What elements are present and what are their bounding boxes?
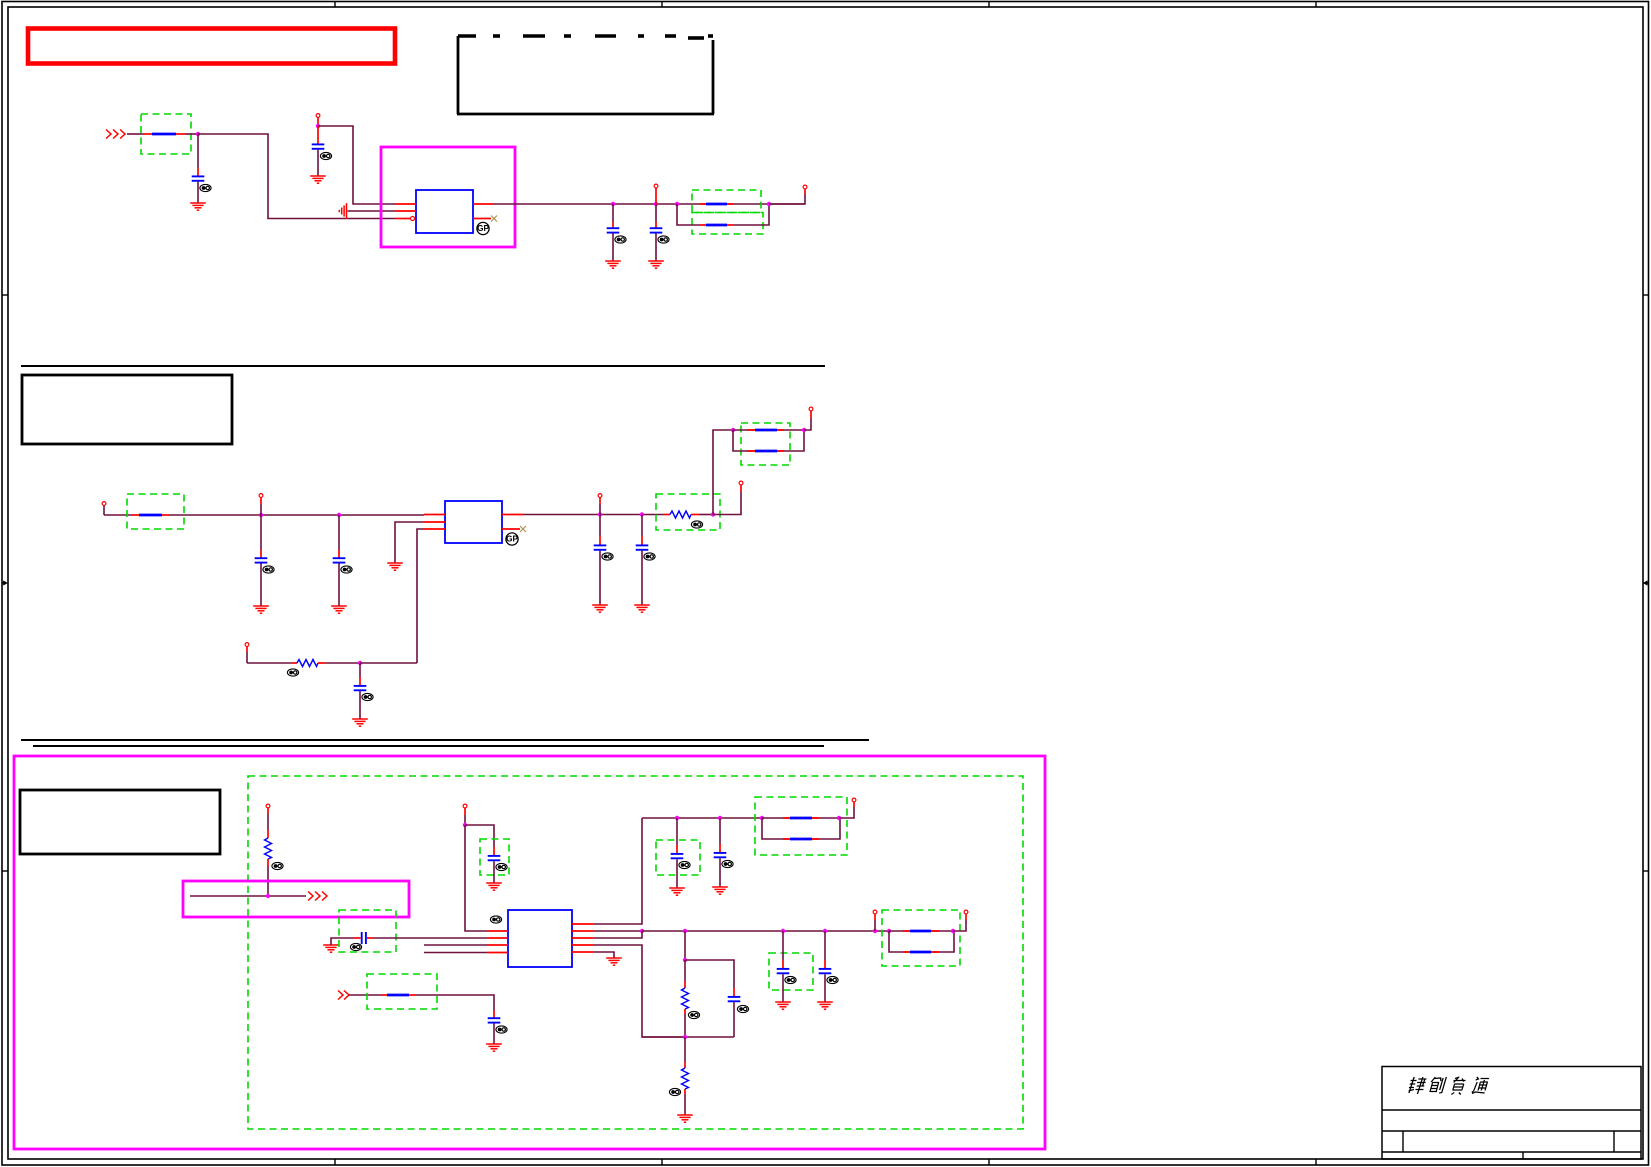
junction at C3 [611, 202, 615, 206]
resistor R3 (vertical) [265, 838, 272, 859]
wire U3 pin 2 to audio rail [593, 930, 642, 932]
wire node D to codec pin1 [465, 825, 487, 931]
output pin P9 [809, 407, 813, 411]
ground at U2 pin 2 [387, 563, 403, 570]
wire U3 pin 5 to ground [593, 952, 614, 958]
U2 output pin stub [502, 514, 523, 516]
U3 right pin 3 stub [572, 937, 593, 939]
junction node D [463, 823, 467, 827]
capacitor C5 stub [260, 515, 262, 558]
wire C12 to ground [493, 1024, 495, 1045]
series capacitor C10 right stub [367, 937, 374, 939]
wire to output pin P9 [804, 411, 811, 430]
junction node A [196, 132, 200, 136]
dnp dashed box around FB1 [141, 114, 191, 154]
capacitor C1 designator [200, 184, 211, 191]
wire R1 to junction [699, 514, 713, 516]
junction at sense pin P14 [873, 929, 877, 933]
U2 pin 3 wire [417, 529, 424, 663]
ferrite bead FB4 [132, 514, 169, 516]
junction audio ferrite pair right [951, 929, 955, 933]
wire junction to sense pin P8 [713, 485, 741, 515]
wire C14 to ground [719, 858, 721, 887]
upper wire through FB5 [733, 429, 804, 431]
U2 pin 1 stub [424, 514, 445, 516]
wire chevrons to ferrite FB7 [349, 994, 381, 996]
ground symbol at regulator pin2 (rotated) [339, 203, 346, 219]
U3 left pin 3 wire [424, 944, 487, 946]
capacitor C3 [607, 228, 620, 232]
ground below C12 [486, 1044, 502, 1051]
net label magenta box [183, 881, 409, 917]
notes box section 2 (text scrubbed) [22, 375, 232, 444]
wire junction down to node E [684, 931, 686, 960]
capacitor C6 stub [338, 515, 340, 558]
U1 nc pin stub [473, 218, 491, 220]
capacitor C6 [333, 558, 346, 562]
title highlight red box [28, 29, 395, 64]
capacitor C2 designator [320, 152, 331, 159]
power pin P7 [598, 494, 602, 498]
U3 left pin 2 stub [487, 937, 508, 939]
wire C16 to ground [782, 974, 784, 1002]
U1 pin 1 stub [395, 203, 416, 205]
junction at ferrite pair right [767, 202, 771, 206]
pin P14 stub [874, 914, 876, 931]
mic pin P12 [463, 804, 467, 808]
wire C2 to ground [317, 150, 319, 176]
junction after R1 [711, 512, 715, 516]
capacitor C7 designator [602, 553, 613, 560]
dnp dashed box around C11 [480, 839, 509, 875]
wire FB7 to capacitor C12 [416, 995, 494, 1010]
resistor R4 designator [688, 1011, 699, 1018]
border zone tick right 2 [1643, 870, 1649, 872]
wire C11 to ground [493, 861, 495, 883]
capacitor C1 red stub [197, 134, 199, 176]
wire C1 to ground [197, 182, 199, 203]
title block row divider 2 [1382, 1130, 1641, 1132]
pin P6 stub [260, 498, 262, 516]
capacitor C2 red stub [317, 126, 319, 144]
dnp dashed box around FB2 [692, 190, 761, 213]
border zone tick right 1 [1643, 294, 1649, 296]
border zone tick left 2 [2, 870, 8, 872]
wire C6 to ground [338, 564, 340, 607]
regulator U2 body [445, 501, 502, 543]
junction ferrite pair right [802, 428, 806, 432]
junction at C7 [598, 512, 602, 516]
ferrite bead FB7 [381, 994, 416, 996]
junction audio rail at U3 [640, 929, 644, 933]
output pin P15 [964, 910, 968, 914]
title block cell divider right [1613, 1131, 1615, 1152]
capacitor C9 [354, 686, 367, 690]
capacitor C4 designator [658, 236, 669, 243]
off-page connector chevrons right [308, 892, 327, 901]
power rail wire [642, 817, 762, 819]
capacitor C17 stub [824, 931, 826, 968]
dnp dashed box around R1 [656, 494, 720, 530]
wire U3 pin to power rail [593, 818, 642, 924]
wire C13 to ground [676, 859, 678, 888]
power pin P6 [259, 494, 263, 498]
wire node B to regulator pin1 [318, 126, 395, 204]
dnp dashed box around C13 [656, 840, 700, 875]
capacitor C8 designator [644, 553, 655, 560]
capacitor C11 designator [496, 863, 507, 870]
wire C3 to ground [612, 234, 614, 262]
module outline magenta box section 3 [14, 756, 1045, 1149]
power pin P13 [852, 798, 856, 802]
ground below C13 [669, 888, 685, 895]
ground below C9 [352, 719, 368, 726]
ground below C11 [486, 883, 502, 890]
audio rail wire [642, 930, 889, 932]
regulator U1 body [416, 190, 473, 233]
wire R2 to junction [325, 662, 360, 664]
title block row divider 1 [1382, 1109, 1641, 1111]
wire R5 to ground [684, 1094, 686, 1115]
junction at C16 [781, 929, 785, 933]
ferrite bead FB1 [143, 133, 185, 135]
series capacitor C10 left stub [353, 937, 361, 939]
resistor R2 left stub [291, 662, 297, 664]
ground below C2 [310, 176, 326, 183]
section divider line [21, 365, 825, 367]
wire input to ferrite FB1 [127, 133, 143, 135]
pin P2 stub [317, 118, 319, 127]
ground below C14 [712, 887, 728, 894]
wire C4 to ground [655, 234, 657, 262]
capacitor C13 designator [679, 861, 690, 868]
border zone tick left 1 [2, 294, 8, 296]
U3 right pin 5 stub [572, 951, 593, 953]
dnp dashed box around FB10 FB11 [882, 910, 960, 966]
wire node D to capacitor C11 [465, 825, 494, 847]
resistor R1 left stub [663, 514, 670, 516]
section divider double line upper [21, 739, 869, 741]
notes box section 1 (text scrubbed) [457, 36, 714, 114]
parallel loop wire through FB11 [889, 931, 954, 952]
power pin P3 [654, 184, 658, 188]
junction ferrite pair left [731, 428, 735, 432]
wire U3 pin 4 to bottom rail [593, 945, 684, 1037]
ferrite bead FB6 [747, 450, 784, 452]
ferrite bead FB2 [700, 203, 733, 205]
resistor R2 [297, 660, 318, 667]
dnp dashed box around FB8 FB9 [755, 797, 847, 855]
border zone tick bottom 4 [1315, 1159, 1317, 1165]
U3 right pin 2 stub [572, 930, 593, 932]
svg-text:GP: GP [477, 224, 489, 233]
U3 right pin 1 stub [572, 923, 593, 925]
capacitor C3 stub [612, 204, 614, 228]
ground below C7 [592, 605, 608, 612]
border centre arrow right [1643, 581, 1648, 585]
bias pin P11 [266, 804, 270, 808]
capacitor C11 [488, 856, 501, 860]
capacitor C16 [777, 969, 790, 973]
pin P10 stub [246, 647, 248, 664]
ferrite bead FB9 [783, 838, 819, 840]
wire C5 to ground [260, 564, 262, 607]
dnp dashed box around FB7 [367, 974, 437, 1009]
resistor R4 bottom stub [684, 1009, 686, 1014]
wire to output pin P15 [953, 914, 966, 931]
wire to power pin P13 [839, 802, 854, 818]
wire FB1 to node A [185, 133, 198, 135]
junction node F [683, 1035, 687, 1039]
wire R4 to bottom rail [684, 1014, 686, 1037]
capacitor C6 designator [341, 566, 352, 573]
U3 left pin 3 stub [487, 944, 508, 946]
junction at C9 [358, 661, 362, 665]
capacitor C13 [671, 854, 684, 858]
wire P5 to ferrite FB4 [104, 514, 132, 516]
wire C10 to codec pin [374, 937, 487, 939]
U2 pin 3 stub [424, 528, 445, 530]
ferrite bead FB8 [783, 817, 819, 819]
sense pin P14 [873, 910, 877, 914]
border zone tick bottom 1 [334, 1159, 336, 1165]
capacitor C12 designator [496, 1026, 507, 1033]
wire U3 pin 3 joins audio rail [593, 931, 642, 938]
capacitor C17 designator [827, 976, 838, 983]
U2 pin 2 wire to ground [395, 522, 424, 563]
module outline box around U1 [381, 147, 515, 247]
junction at C4 [654, 202, 658, 206]
U2 GP marker [506, 533, 519, 545]
resistor R3 bottom stub [267, 859, 269, 866]
no-connect cross at U2 [520, 526, 526, 532]
capacitor C12 [488, 1018, 501, 1022]
U1 output pin stub [473, 203, 494, 205]
resistor R5 top stub [684, 1037, 686, 1068]
U1 pin 2 stub [395, 210, 416, 212]
ferrite bead FB5 [747, 429, 784, 431]
capacitor C16 designator [785, 976, 796, 983]
wire ground to series capacitor C10 [331, 938, 353, 945]
resistor R1 designator [691, 521, 702, 528]
junction at RC network [683, 929, 687, 933]
capacitor C8 stub [641, 515, 643, 545]
series capacitor C10 designator [350, 943, 361, 950]
border zone tick bottom 2 [661, 1159, 663, 1165]
capacitor C4 stub [655, 204, 657, 228]
U1 GP marker [477, 222, 490, 234]
parallel loop wire through FB6 [733, 430, 804, 451]
capacitor C16 stub [782, 931, 784, 968]
ground at U3 pin 5 [606, 958, 622, 965]
border zone tick top 4 [1315, 2, 1317, 8]
wire to output pin P4 [769, 189, 805, 204]
off-page input connector chevrons [106, 130, 125, 139]
title block outline [1382, 1067, 1641, 1160]
junction node C [266, 894, 270, 898]
wire node A to regulator pin3 [198, 134, 395, 219]
U3 left pin 4 stub [487, 952, 508, 954]
main input rail wire [169, 514, 424, 516]
title block row divider 3 [1382, 1151, 1641, 1153]
junction at C5 [259, 513, 263, 517]
capacitor C9 designator [362, 693, 373, 700]
sense pin P8 [739, 481, 743, 485]
U3 left pin 1 stub [487, 930, 508, 932]
dnp dashed box around FB3 [692, 213, 763, 235]
U2 output rail wire [523, 514, 663, 516]
wire C7 to ground [599, 551, 601, 605]
section divider double line lower [33, 745, 824, 747]
dnp dashed box around FB5 FB6 [741, 423, 790, 465]
series capacitor C10 [362, 932, 366, 944]
capacitor C9 stub [359, 663, 361, 685]
pin P11 stub [267, 808, 269, 830]
wire C15 to bottom rail [733, 1002, 735, 1037]
border zone tick top 3 [988, 2, 990, 8]
dnp dashed region box [248, 776, 1023, 1129]
dnp dashed box around C10 [339, 910, 396, 952]
U3 right pin 4 stub [572, 944, 593, 946]
ground below C6 [331, 606, 347, 613]
capacitor C17 [819, 969, 832, 973]
junction at C6 [337, 513, 341, 517]
resistor R4 top stub [684, 960, 686, 988]
ferrite bead FB3 [700, 224, 733, 226]
capacitor C7 stub [599, 515, 601, 545]
no-connect cross at U1 [491, 216, 497, 222]
capacitor C14 [714, 853, 727, 857]
capacitor C13 stub [676, 818, 678, 853]
junction node E [683, 958, 687, 962]
ferrite bead FB11 [903, 951, 939, 953]
capacitor C14 stub [719, 818, 721, 852]
U1 pin 3 stub with bubble [395, 217, 415, 221]
capacitor C5 [255, 558, 268, 562]
capacitor C8 [636, 545, 649, 549]
U3 left pin 4 wire [424, 952, 487, 954]
border zone tick bottom 3 [988, 1159, 990, 1165]
input pin P5 [102, 502, 106, 506]
bottom rail wire [642, 1036, 734, 1038]
ground below R5 [677, 1115, 693, 1122]
capacitor C5 designator [263, 566, 274, 573]
parallel loop wire through FB9 [762, 818, 840, 839]
adjust pin P10 [245, 643, 249, 647]
resistor R5 bottom stub [684, 1089, 686, 1094]
parallel loop wire through FB3 [677, 204, 769, 225]
pin P7 stub [599, 498, 601, 515]
wire C17 to ground [824, 974, 826, 1002]
upper wire through FB8 [762, 817, 839, 819]
codec U3 body [508, 910, 572, 967]
riser wire to ferrite pair [713, 430, 733, 515]
capacitor C2 [312, 144, 325, 148]
resistor R5 designator [669, 1088, 680, 1095]
resistor R1 right stub [691, 514, 699, 516]
resistor R5 (vertical) [682, 1068, 689, 1089]
junction power ferrite pair right [837, 816, 841, 820]
wire C9 to ground [359, 691, 361, 719]
ground below C5 [253, 606, 269, 613]
wire node E to capacitor C15 [685, 960, 734, 988]
ground below C17 [817, 1002, 833, 1009]
wire C8 to ground [641, 551, 643, 605]
capacitor C1 [192, 176, 205, 180]
power pin P2 [316, 114, 320, 118]
ground below C4 [648, 261, 664, 268]
wire inside net label box [190, 895, 306, 897]
resistor R3 designator [272, 862, 283, 869]
resistor R4 (vertical) [682, 988, 689, 1009]
capacitor C11 stub [493, 847, 495, 855]
title block bottom cell divider [1522, 1152, 1524, 1160]
dnp dashed box around FB4 [127, 494, 184, 529]
capacitor C15 [728, 997, 741, 1001]
company logo text [1407, 1077, 1489, 1095]
upper wire through FB10 [889, 930, 953, 932]
junction at C13 [675, 816, 679, 820]
border zone tick top 1 [334, 2, 336, 8]
wire R3 to node C [267, 866, 269, 896]
notes box section 3 (text scrubbed) [20, 790, 220, 854]
ground below C1 [190, 203, 206, 210]
ground below C16 [775, 1002, 791, 1009]
capacitor C7 [594, 545, 607, 549]
svg-text:GP: GP [506, 535, 518, 544]
capacitor C15 designator [737, 1005, 748, 1012]
ground below C8 [634, 605, 650, 612]
resistor R3 top stub [267, 830, 269, 838]
output wire of U1 [494, 203, 805, 205]
border zone tick top 2 [661, 2, 663, 8]
dnp dashed box around C16 [769, 953, 813, 990]
capacitor C15 stub [733, 988, 735, 996]
ferrite bead FB10 [903, 930, 939, 932]
U2 pin 2 stub [424, 521, 445, 523]
capacitor C4 [650, 228, 663, 232]
wire junction to U2 pin3 riser [360, 662, 417, 664]
border centre arrow left [2, 581, 7, 585]
junction power ferrite pair left [760, 816, 764, 820]
ground below C3 [605, 261, 621, 268]
ground at series cap [323, 945, 339, 952]
junction at C14 [718, 816, 722, 820]
junction at C17 [823, 929, 827, 933]
output pin P4 [803, 185, 807, 189]
pin P3 stub [655, 188, 657, 204]
pin P5 stub [103, 506, 105, 516]
junction audio ferrite pair left [887, 929, 891, 933]
title block cell divider left [1402, 1131, 1404, 1152]
capacitor C3 designator [615, 236, 626, 243]
capacitor C12 stub [493, 1010, 495, 1018]
wire pin2 to ground [348, 210, 396, 212]
capacitor C14 designator [722, 860, 733, 867]
junction at ferrite pair left [675, 202, 679, 206]
resistor R2 right stub [318, 662, 325, 664]
resistor R2 designator [287, 669, 298, 676]
input connector chevrons double [338, 991, 349, 1000]
U2 nc pin stub [502, 528, 520, 530]
U3 designator glyph [490, 916, 501, 923]
resistor R1 [670, 511, 691, 518]
pin P12 stub [464, 808, 466, 825]
junction node B [316, 124, 320, 128]
wire P10 to resistor R2 [247, 662, 291, 664]
junction at C8 [640, 512, 644, 516]
